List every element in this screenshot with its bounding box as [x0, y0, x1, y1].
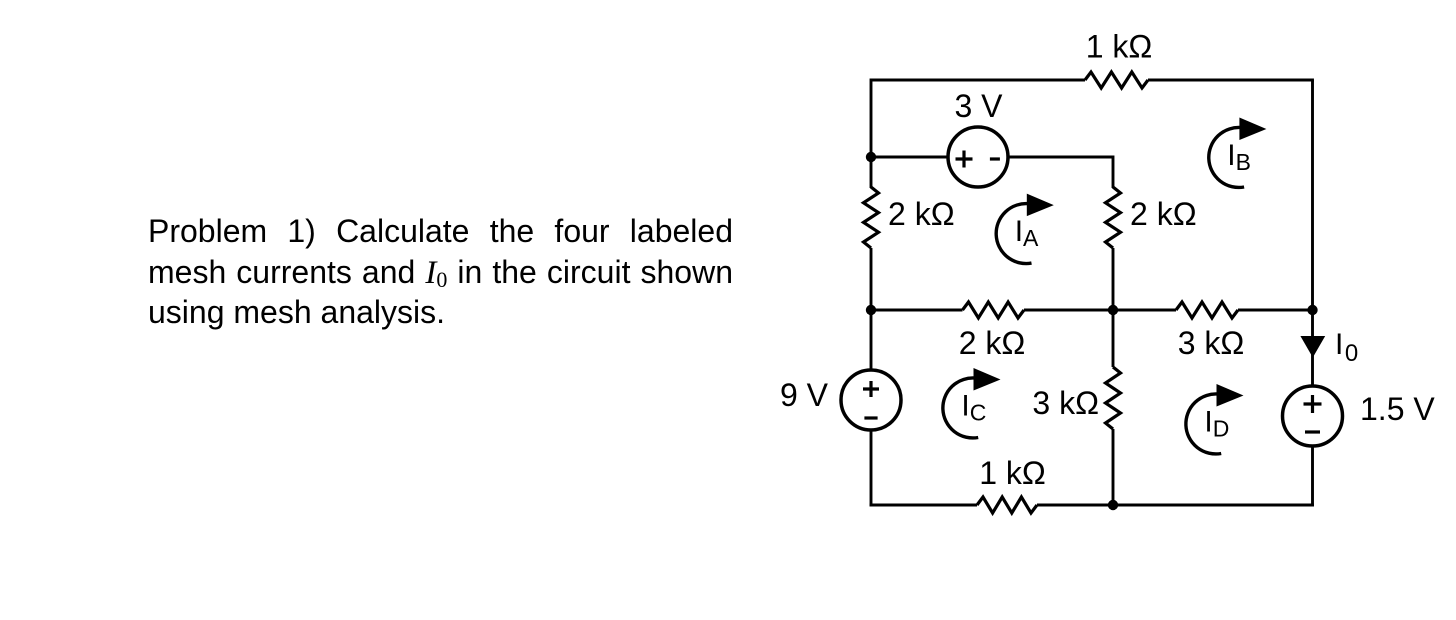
voltage source V3 1.5 V — [1283, 386, 1343, 446]
wire left rail between R2 and mid rail — [870, 248, 873, 311]
wire right rail mid-to-1.5V — [1311, 310, 1314, 387]
wire middle rail R6-to-bottom — [1112, 429, 1115, 506]
wire left rail upper — [870, 79, 873, 189]
wire top rail left segment — [871, 79, 1085, 82]
current I0 arrow on right rail — [1300, 336, 1325, 358]
wire from 3V source to middle rail corner — [1008, 156, 1114, 159]
wire mid rail segment 2 — [1024, 309, 1176, 312]
wire middle rail mid-to-R6 — [1112, 310, 1115, 367]
node junction dot bottom rail / middle rail — [1108, 500, 1118, 510]
wire left rail 9V-to-bottom — [870, 430, 873, 507]
node junction dot left rail / mid rail — [866, 305, 876, 315]
svg-text:IB: IB — [1227, 139, 1251, 175]
svg-text:3 kΩ: 3 kΩ — [1032, 385, 1099, 421]
svg-text:1 kΩ: 1 kΩ — [1086, 29, 1153, 65]
mesh current arrow IA — [996, 194, 1054, 264]
node junction dot at left rail / 3V branch — [866, 152, 876, 162]
wire middle rail upper vertical — [1112, 156, 1115, 189]
wire middle rail between R3 and mid rail — [1112, 248, 1115, 311]
problem statement text — [148, 212, 733, 332]
resistor R7 1 kOhm bottom — [977, 497, 1037, 513]
mesh current arrow IB — [1209, 118, 1267, 188]
node junction dot middle rail / mid rail — [1108, 305, 1118, 315]
svg-text:IA: IA — [1015, 215, 1039, 251]
mesh current arrow IC — [943, 368, 1001, 438]
svg-text:2 kΩ: 2 kΩ — [1130, 196, 1197, 232]
resistor R1 1 kOhm top — [1085, 72, 1148, 88]
voltage source V1 3 V — [948, 127, 1008, 187]
resistor R2 2 kOhm left rail vertical — [864, 187, 879, 248]
wire mid rail segment 3 — [1238, 309, 1314, 312]
resistor R5 3 kOhm mid horizontal — [1176, 302, 1238, 318]
resistor R4 2 kOhm mid horizontal — [963, 302, 1025, 318]
wire bottom rail left segment — [870, 504, 977, 507]
resistor R6 3 kOhm middle rail vertical lower — [1106, 367, 1121, 429]
svg-text:3 V: 3 V — [954, 88, 1003, 124]
svg-text:ID: ID — [1204, 406, 1229, 442]
wire left rail mid-to-9V — [870, 310, 873, 371]
mesh current arrow ID — [1186, 384, 1244, 454]
wire bottom rail right segment — [1037, 504, 1314, 507]
voltage source V2 9 V — [841, 370, 901, 430]
svg-text:2 kΩ: 2 kΩ — [959, 325, 1026, 361]
node junction dot right rail / mid rail — [1307, 305, 1317, 315]
wire mid rail segment 1 — [871, 309, 963, 312]
wire from left rail to 3V source — [871, 156, 949, 159]
wire top rail right segment — [1148, 79, 1314, 82]
svg-text:1 kΩ: 1 kΩ — [979, 455, 1046, 491]
svg-text:3 kΩ: 3 kΩ — [1178, 325, 1245, 361]
svg-text:2 kΩ: 2 kΩ — [888, 196, 955, 232]
svg-text:1.5 V: 1.5 V — [1360, 391, 1435, 427]
svg-text:9 V: 9 V — [780, 377, 829, 413]
svg-text:I0: I0 — [1335, 328, 1358, 367]
wire right rail upper — [1311, 80, 1314, 311]
svg-text:IC: IC — [961, 390, 986, 426]
resistor R3 2 kOhm middle rail vertical — [1106, 187, 1121, 248]
wire right rail 1.5V-to-bottom — [1311, 446, 1314, 507]
